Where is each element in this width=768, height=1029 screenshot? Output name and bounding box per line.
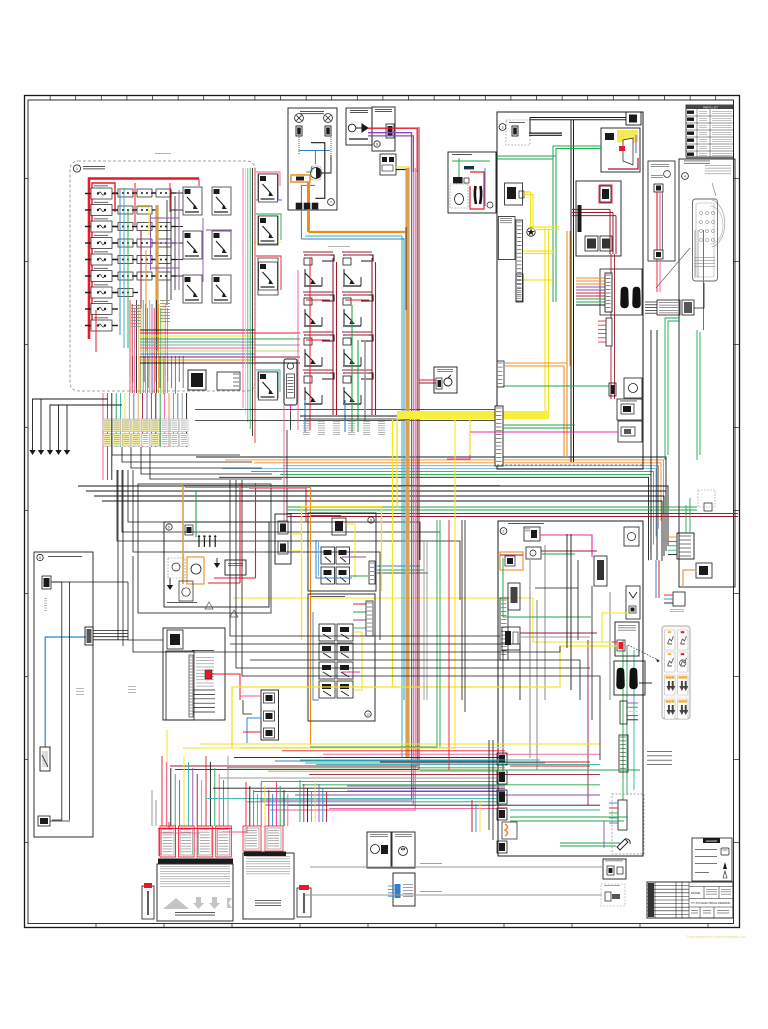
bottom mid drop bundle <box>246 782 288 826</box>
yellow mid horizontal <box>233 598 617 642</box>
frame ground verticals <box>117 470 119 640</box>
fuse A6 <box>85 271 118 282</box>
fuse D1 <box>151 189 176 197</box>
speaker blue loop <box>316 540 352 578</box>
rear speaker magenta wire <box>342 671 360 673</box>
green horizontal low <box>420 769 640 771</box>
grip left <box>621 287 629 308</box>
main interconnect crimson pair <box>287 513 738 515</box>
fuse panel lower component <box>188 370 206 390</box>
accessory relay cell pink <box>258 174 278 200</box>
amp ground arrow <box>214 563 220 568</box>
saddlebag switch box <box>434 367 457 393</box>
antenna interface connector <box>386 124 394 138</box>
fuse panel wire purple net <box>151 190 233 290</box>
fuse A1 <box>85 188 118 199</box>
rear orange outline box <box>500 552 523 570</box>
gray service wire 1 <box>310 866 603 868</box>
svg-text:3: 3 <box>502 126 504 130</box>
amp capacitors <box>199 538 215 547</box>
center pin strip <box>605 273 612 312</box>
connector column block 3 <box>497 790 507 804</box>
rear speaker yellow cell wires <box>354 632 362 690</box>
instrument nacelle box <box>679 159 735 587</box>
stub bundle colored center <box>576 278 605 305</box>
amp callout circle 5 <box>166 524 172 530</box>
trunk blue wire <box>403 238 405 700</box>
svg-text:LEGEND: LEGEND <box>706 839 718 843</box>
fuse C2 <box>132 206 157 214</box>
radio unit red mark <box>619 146 625 151</box>
module label strips <box>298 134 300 137</box>
yellow lower elbow pair <box>523 250 556 252</box>
purple long pair <box>347 785 505 787</box>
svg-text:8: 8 <box>39 556 41 560</box>
audio amp outer box <box>138 484 271 613</box>
connector column block 4 <box>497 808 507 820</box>
fairing black riser pair <box>570 120 572 462</box>
fairing green risers <box>685 505 687 533</box>
amp dashed sub box <box>168 558 185 578</box>
bank left gray drop <box>151 790 153 826</box>
speaker connectors <box>296 126 302 136</box>
speaker pin strip right <box>369 561 375 584</box>
fuse B3 <box>113 223 138 231</box>
diode black stub <box>396 169 409 171</box>
rear speaker cells <box>319 624 335 641</box>
svg-text:FRAME: FRAME <box>691 891 700 895</box>
premium radio label <box>192 649 214 652</box>
fairing top black pair <box>530 117 626 119</box>
radio main clock comp <box>600 186 611 202</box>
diode pack box <box>380 154 396 175</box>
trunk crimson pair <box>170 170 417 766</box>
headlamp filaments <box>475 186 476 204</box>
connector column block 5 <box>497 841 507 853</box>
rear magenta component <box>594 556 607 586</box>
diode pack yellow wire <box>396 167 409 175</box>
cluster relay right row 1 <box>343 255 373 286</box>
magneti controller box <box>157 864 233 921</box>
flasher drop pair <box>283 405 285 521</box>
wide yellow band <box>397 411 549 419</box>
accessory feed bundle vertical <box>243 168 255 443</box>
main interconnect green pair <box>287 506 697 508</box>
trunk tan band <box>405 168 409 757</box>
antenna coax box <box>648 161 675 261</box>
mid-right black drop <box>694 283 704 308</box>
fuse panel tiny label strips <box>131 304 141 307</box>
fuse C1 <box>132 189 157 197</box>
radio unit yellow block <box>617 130 638 143</box>
service dashed box <box>601 884 625 906</box>
module orange trunk start <box>307 182 310 232</box>
cluster blue stubs <box>304 400 306 432</box>
headlamp relay block <box>453 177 463 183</box>
fuse panel vertical bus black <box>170 190 172 300</box>
amp red loop <box>239 483 241 583</box>
teal right low <box>510 809 600 811</box>
premium radio red comp <box>205 670 212 679</box>
yellow short riser <box>469 419 471 455</box>
green right pair low <box>510 816 628 818</box>
rear speaker box right <box>392 832 415 868</box>
red elbow mid <box>249 488 306 522</box>
amp warning triangle 2 <box>230 610 238 617</box>
antenna interface box <box>372 107 395 151</box>
module relay circle <box>311 168 322 179</box>
saddlebag feed wires <box>471 800 473 832</box>
CB jack box 1 <box>617 399 642 420</box>
accessory relay cell green <box>258 216 278 245</box>
cluster bottom label strips <box>303 420 310 423</box>
rear row2 crimson wire <box>541 550 597 552</box>
speedometer label rows <box>694 256 715 259</box>
amp battery box <box>225 560 246 575</box>
fuse panel rainbow bundle vertical <box>130 300 167 393</box>
rear pin strip B labels <box>647 750 672 753</box>
saddlebag red feed <box>419 379 436 381</box>
red right low <box>510 765 590 767</box>
rear pin strip B <box>619 735 628 772</box>
rear drop green pair <box>622 640 624 800</box>
fuse A8 <box>85 304 118 315</box>
rear speaker pin strips <box>366 601 373 636</box>
gray pair verticals <box>423 540 425 700</box>
relay K3 <box>183 231 202 259</box>
circle-A box <box>624 378 642 398</box>
icon cell r2c2 <box>678 652 689 672</box>
orange pair wires <box>505 363 567 457</box>
relay tall box mid <box>275 514 291 564</box>
fuse B2 <box>113 206 138 214</box>
svg-text:PARTS LIST: PARTS LIST <box>703 105 718 109</box>
cluster relay right row 4 <box>343 373 373 404</box>
flasher wire magenta <box>290 405 292 412</box>
relay K6 <box>212 275 231 303</box>
trunk pink wire <box>270 168 415 810</box>
rear dashed pin strip <box>618 800 627 830</box>
amp circle component <box>191 564 201 574</box>
relay K1 <box>183 187 202 215</box>
fuse B4 <box>113 239 138 247</box>
antenna coax connector top <box>654 184 663 192</box>
headlamp blue wire <box>484 168 486 206</box>
icon cell r1c1 <box>665 630 676 650</box>
fuse A7 <box>85 287 118 298</box>
trunk purple pair <box>260 170 412 800</box>
harness drop bundle <box>103 393 187 480</box>
connector label text marks <box>104 420 110 423</box>
left tall sub box <box>498 217 515 260</box>
fuse panel output bundle horizontal <box>140 330 300 363</box>
left harness label strips <box>44 597 47 600</box>
fuse panel wire blue vertical <box>119 190 121 335</box>
fairing speaker callout circle 9 <box>368 517 374 523</box>
red vertical <box>448 520 450 770</box>
rear speaker box left <box>367 832 391 868</box>
fuse C4 <box>132 239 157 247</box>
magneti label <box>175 911 215 914</box>
green wire connector <box>609 383 616 396</box>
CB aerial symbol <box>348 124 356 132</box>
legend connector icon <box>721 848 729 855</box>
rear speaker box <box>308 594 375 721</box>
radio main connector strip <box>578 205 582 232</box>
relay K4 <box>212 231 231 259</box>
accessory relay cell teal <box>258 372 278 398</box>
left edge stack wires <box>492 740 494 840</box>
main cluster label <box>328 245 350 248</box>
legend solid arrow <box>723 862 727 869</box>
svg-text:9: 9 <box>370 519 372 523</box>
icon cell r3c1 <box>665 675 676 695</box>
ignition yellow wire <box>560 645 617 647</box>
cluster black riser right <box>405 227 407 310</box>
antenna red wire <box>368 128 417 172</box>
rear drop teal <box>633 650 635 790</box>
fuse B1 <box>113 189 138 197</box>
fuse panel lower connector block <box>217 372 240 390</box>
fairing callout circle 3 <box>499 124 506 131</box>
fairing black connector pair wires <box>529 132 562 134</box>
cluster relay left row 2 <box>304 295 334 326</box>
fuse C6 <box>132 272 157 280</box>
cluster green wires <box>351 305 353 432</box>
svg-text:10: 10 <box>366 713 370 717</box>
speaker left <box>295 114 304 123</box>
bank red weave <box>158 828 232 830</box>
bank pink link <box>222 827 247 832</box>
rear row2 green wire <box>541 553 575 555</box>
label row fan black <box>112 447 240 455</box>
legend outline arrow <box>723 871 727 878</box>
output module bank <box>243 826 261 851</box>
bottom drop bundle left <box>162 756 228 826</box>
fuse A5 <box>85 254 118 265</box>
tour pack box <box>261 690 279 740</box>
amp speaker circle box <box>179 581 193 601</box>
speedometer pins <box>699 211 714 241</box>
fuse panel wire crimson vertical <box>140 230 142 352</box>
black pair verticals <box>461 520 463 700</box>
antenna purple wires <box>368 133 412 172</box>
ignition module box <box>615 622 639 656</box>
fairing green riser pair <box>553 146 601 157</box>
engineering parts list table <box>686 105 734 157</box>
rear box left pin strip <box>500 598 508 660</box>
icon cell r3c2 <box>678 675 689 695</box>
premium radio pin strip <box>189 655 193 717</box>
cluster gray riser <box>364 340 366 420</box>
left pin strip mid <box>497 361 504 387</box>
rear row2 connector <box>526 547 541 559</box>
fuse B7 <box>113 289 138 297</box>
radio unit purple wire <box>635 135 637 153</box>
sheet inner border frame <box>28 100 734 924</box>
accessory blue red drop pair <box>655 560 657 598</box>
tour pack red wire <box>243 731 261 733</box>
premium radio black stubs <box>193 690 215 712</box>
magenta wire to CB jack <box>447 432 618 459</box>
black distribution elbows <box>128 470 420 560</box>
sheet outer border frame <box>25 96 740 928</box>
fuse panel wire teal vertical <box>123 188 125 348</box>
amp green wire <box>195 490 197 537</box>
instrument callout circle 4 <box>682 173 689 180</box>
rear comp pair lower <box>502 627 520 650</box>
flasher wire black <box>290 412 292 430</box>
instrument note text <box>705 164 731 167</box>
headlamp green wires top <box>458 158 460 177</box>
border zone tick marks left <box>25 179 29 843</box>
cluster relay left row 3 <box>304 335 334 366</box>
accessory relay cell red <box>258 258 278 295</box>
rear callout circle 2 <box>500 528 507 535</box>
fairing connector stubs colored <box>668 537 677 555</box>
fuse D3 <box>151 239 176 247</box>
fairing speaker box <box>308 513 376 591</box>
cluster bottom black bus <box>300 415 410 417</box>
mid-right connector pair <box>657 300 680 315</box>
revision table <box>647 882 689 918</box>
speedometer housing ellipse <box>712 200 725 247</box>
fuse C3 <box>132 223 157 231</box>
svg-text:7: 7 <box>330 201 332 205</box>
main interconnect bundle B black <box>78 486 668 561</box>
band edge black rails <box>195 409 495 411</box>
tour pack pink wire <box>240 695 261 697</box>
speaker module yellow S path <box>524 192 559 227</box>
fairing speaker output lines <box>377 565 420 567</box>
cluster crimson risers <box>303 252 376 415</box>
fuse panel wire tan band vertical <box>155 205 158 352</box>
left harness tall box <box>34 552 93 837</box>
audio amp inner box <box>164 522 269 607</box>
module blue wiring <box>299 151 330 240</box>
left harness component <box>40 747 50 771</box>
fuse panel bus wires black <box>112 193 183 276</box>
radio unit speaker cone <box>623 138 633 165</box>
saddlebag switch connector <box>436 378 442 389</box>
CB jack box 2 <box>618 421 642 442</box>
instrument label header <box>684 160 710 163</box>
speedometer pointer line <box>656 248 690 288</box>
module pins <box>296 203 302 209</box>
module orange component <box>291 175 310 182</box>
title block outer <box>647 882 733 918</box>
yellow elbow low <box>396 419 398 508</box>
radio speaker unit box <box>601 128 640 172</box>
black riser right pair <box>650 330 652 560</box>
rear dashed connector box <box>612 794 644 854</box>
icon cell r4c2 <box>678 699 689 719</box>
amp connector small <box>185 525 193 535</box>
tall yellow riser <box>232 419 393 748</box>
tour pack black links <box>243 700 252 714</box>
mid-right green drops <box>665 318 680 460</box>
main interconnect bundle A <box>196 457 666 560</box>
fuse panel wire yellow segment <box>138 207 149 235</box>
fuse panel callout circle 1 <box>73 165 80 172</box>
border zone tick marks top <box>50 96 716 101</box>
orange coil component <box>502 822 517 839</box>
yellow loop around fairing speaker box <box>302 507 382 641</box>
tour pack blue wire <box>247 717 261 719</box>
connector label row 2 boxes <box>103 434 188 447</box>
ignition connector <box>617 640 625 651</box>
radio main unit box <box>576 181 621 256</box>
headlamp red frame <box>470 172 484 209</box>
rear green wires <box>503 558 591 617</box>
speaker switch yellow wire <box>346 524 355 578</box>
left pin strip upper <box>516 220 523 301</box>
fairing harness box <box>497 112 643 469</box>
rear crimson mid wire <box>520 632 597 634</box>
nacelle tan wire <box>683 570 696 587</box>
left long pin strip <box>495 406 503 466</box>
left harness connector <box>42 576 51 589</box>
relay tall box yellow stubs <box>291 533 302 535</box>
module green stub <box>306 166 312 172</box>
rear orange box crimson feed <box>500 554 523 556</box>
rear magenta wire <box>540 535 592 557</box>
headlamp dashed housing <box>450 184 468 208</box>
fuse panel red distribution wires <box>96 179 199 353</box>
trunk teal wire <box>401 236 403 757</box>
amp ground arrow 2 <box>167 585 173 590</box>
fuse panel dashed enclosure <box>70 161 255 391</box>
connector bank row <box>160 826 176 857</box>
left harness mid connector <box>85 627 93 645</box>
nacelle bottom connector <box>696 563 712 578</box>
fuse B5 <box>113 256 138 264</box>
headlamp callout <box>487 202 493 208</box>
rear horn box <box>626 586 640 619</box>
speaker purple wire <box>342 556 366 558</box>
small module box <box>505 183 523 205</box>
bottom horizontal bundle <box>200 744 600 809</box>
service dashed connector <box>605 892 611 901</box>
siren box <box>393 873 415 906</box>
left harness bottom connector <box>38 816 50 826</box>
icon cell r1c2 <box>678 630 689 650</box>
battery feed wire red main <box>89 179 199 340</box>
antenna coax red pair <box>656 192 658 250</box>
instrument gray drops <box>694 230 696 278</box>
module callout circle 7 <box>328 199 335 206</box>
pointer to icon panel <box>628 645 660 661</box>
antenna mast right <box>297 888 311 917</box>
premium radio red wire <box>212 674 240 700</box>
connector column block 1 <box>497 753 507 765</box>
fuse D2 <box>151 223 176 231</box>
combination antenna module box <box>288 108 337 210</box>
fairing dashed connector box <box>506 120 530 145</box>
rear b-plus comp <box>624 527 639 546</box>
ignition red wire <box>612 641 617 643</box>
black elbows low <box>230 644 520 700</box>
yellow bank drop <box>166 730 168 826</box>
long orange rail elbow <box>185 488 311 746</box>
speaker switch cells <box>321 547 335 564</box>
yellow bottom stub <box>521 279 553 281</box>
svg-text:6: 6 <box>376 143 378 147</box>
antenna coax connector bottom <box>654 250 663 259</box>
accessory drop connector <box>673 592 685 606</box>
rear horn connector <box>524 527 540 541</box>
svg-text:5: 5 <box>168 526 170 530</box>
